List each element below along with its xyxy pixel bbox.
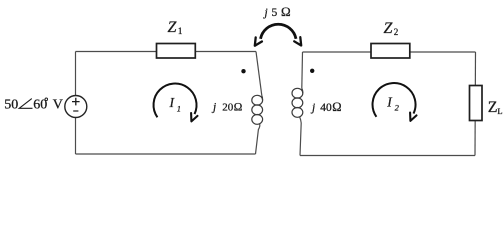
svg-text:V: V — [53, 97, 63, 112]
svg-text:50: 50 — [4, 97, 18, 112]
dot mark L1 — [241, 69, 245, 73]
angle symbol — [19, 99, 32, 109]
voltage source Vs — [65, 96, 87, 118]
arrowhead right — [294, 37, 301, 45]
svg-text:Z: Z — [488, 99, 498, 116]
arrowhead left — [255, 37, 262, 45]
wire: right mesh left edge upper segment — [301, 52, 304, 89]
impedance Z1 box — [157, 44, 196, 59]
wire: right mesh right edge — [474, 52, 477, 156]
svg-text:2: 2 — [395, 103, 400, 113]
wire: left mesh bottom — [76, 153, 256, 155]
svg-text:1: 1 — [177, 103, 181, 113]
svg-text:2: 2 — [394, 27, 399, 37]
inductor L1 coil — [252, 95, 263, 124]
dot mark L2 — [310, 69, 314, 73]
svg-text:40: 40 — [320, 102, 332, 114]
wire: right mesh bottom — [300, 155, 475, 157]
svg-text:Ω: Ω — [234, 102, 243, 114]
svg-text:1: 1 — [178, 26, 183, 36]
svg-text:Z: Z — [168, 19, 178, 36]
mesh current I2 arrow — [373, 83, 416, 117]
load impedance ZL box — [470, 86, 483, 121]
svg-text:Ω: Ω — [281, 4, 291, 19]
wire: right mesh left edge lower segment — [300, 117, 302, 156]
svg-text:20: 20 — [222, 102, 234, 114]
wire: left mesh right edge upper segment — [256, 52, 262, 96]
degree mark — [45, 98, 48, 101]
wire: left mesh right edge lower segment — [256, 123, 260, 154]
impedance Z2 box — [371, 44, 410, 59]
mutual coupling arrow — [261, 24, 297, 39]
svg-text:L: L — [497, 106, 502, 116]
svg-text:Ω: Ω — [332, 100, 341, 114]
wire: left mesh left edge — [75, 52, 77, 155]
mesh current I1 arrow — [154, 83, 197, 117]
inductor L2 coil — [292, 88, 303, 117]
svg-text:5: 5 — [272, 7, 278, 19]
svg-text:Z: Z — [384, 20, 394, 37]
wire: right mesh top — [303, 51, 476, 53]
wire: left mesh top — [76, 51, 257, 53]
